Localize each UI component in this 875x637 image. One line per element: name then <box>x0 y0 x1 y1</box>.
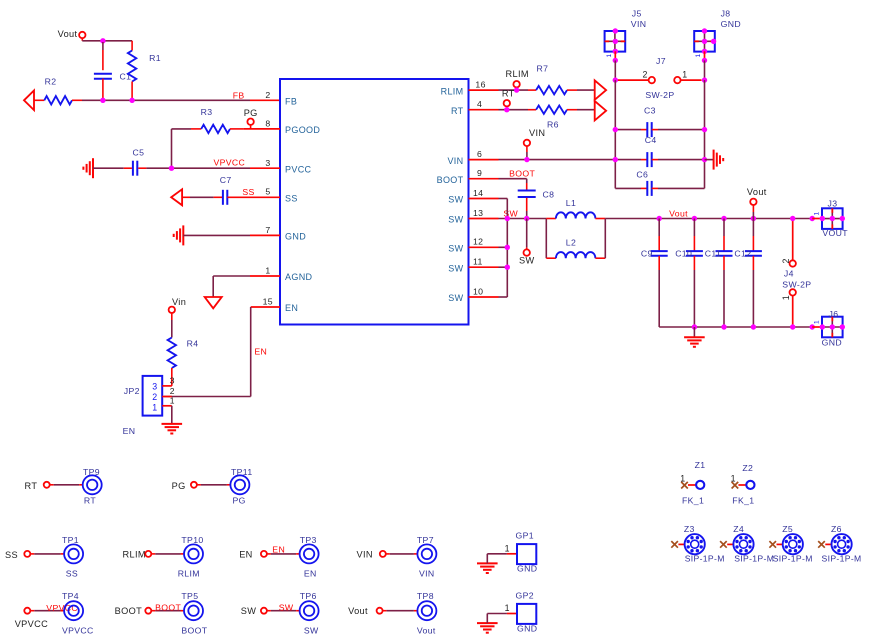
label C11 <box>705 248 721 258</box>
junction J4 top <box>790 216 795 221</box>
label R4 <box>187 338 199 348</box>
svg-text:C12: C12 <box>734 248 751 258</box>
pin number 4 <box>477 99 482 109</box>
wire Vout rail <box>605 218 812 220</box>
wire PGOOD vertical <box>171 129 173 168</box>
connector JP2 body <box>143 376 163 416</box>
node PG label <box>172 481 186 491</box>
svg-text:J7: J7 <box>656 56 666 66</box>
wire Vout top <box>82 40 132 42</box>
wire SW circle stub <box>526 219 528 250</box>
svg-text:RLIM: RLIM <box>123 549 146 559</box>
pin number 5 <box>265 187 270 197</box>
wire GND bus upper <box>704 60 706 80</box>
svg-text:J6: J6 <box>829 309 839 319</box>
mount hole Z4 <box>733 534 753 554</box>
label Z6 <box>831 524 842 534</box>
svg-text:SW-2P: SW-2P <box>782 280 811 290</box>
pin circle RLIM <box>145 551 151 557</box>
junction J3 wire <box>810 216 815 221</box>
connector GP2 body <box>517 604 536 624</box>
svg-text:5: 5 <box>265 187 270 197</box>
junction R1 bottom <box>129 98 134 103</box>
svg-text:13: 13 <box>473 208 483 218</box>
no-connect X Z2 <box>732 482 739 489</box>
wire PG-TP11 <box>197 484 231 486</box>
switch J4 pin1 <box>790 289 796 327</box>
mount hole Z5 <box>783 534 803 554</box>
svg-text:J3: J3 <box>828 199 838 209</box>
pin number 9 <box>477 168 482 178</box>
resistor R1 <box>128 41 136 101</box>
net label VPVCC <box>46 603 78 613</box>
svg-text:TP8: TP8 <box>417 591 434 601</box>
svg-text:1: 1 <box>152 403 157 413</box>
node RLIM label <box>506 69 529 79</box>
label C6 <box>636 170 648 180</box>
svg-text:1: 1 <box>814 320 821 324</box>
svg-text:PG: PG <box>233 495 246 505</box>
Z5 pin stub <box>777 543 783 545</box>
wire PGOOD horiz <box>172 128 192 130</box>
wire R7 to arrow <box>577 89 595 91</box>
svg-text:SW: SW <box>304 625 319 635</box>
testpoint TP11 <box>230 475 249 494</box>
label Z2 <box>742 463 753 473</box>
node PG label <box>244 108 258 118</box>
ground left of C5 <box>83 158 93 178</box>
J4 pin number 1 <box>781 295 791 300</box>
pin circle SS <box>24 551 30 557</box>
svg-text:7: 7 <box>265 225 270 235</box>
svg-text:VIN: VIN <box>631 19 647 29</box>
value FK_1 (Z2) <box>732 495 754 505</box>
wire gnd stub <box>693 327 695 337</box>
svg-text:SIP-1P-M: SIP-1P-M <box>822 554 862 564</box>
J3 pin stub <box>812 218 822 220</box>
J6 junction left <box>820 324 825 329</box>
label GP1 <box>516 531 534 541</box>
net label SS <box>242 187 254 197</box>
wire FB <box>82 99 250 101</box>
svg-text:Vout: Vout <box>669 208 688 218</box>
value SW (TP6) <box>304 625 319 635</box>
node RT label <box>25 481 38 491</box>
pin 14 stub <box>469 198 499 200</box>
label C3 <box>644 106 656 116</box>
svg-text:4: 4 <box>477 99 482 109</box>
switch J7 pin1 <box>674 77 701 83</box>
svg-text:2: 2 <box>643 69 648 79</box>
wire VIN pin6 <box>499 159 616 161</box>
pin circle VIN <box>380 551 386 557</box>
wire SW11 <box>499 266 508 268</box>
svg-text:GP2: GP2 <box>516 591 534 601</box>
label TP8 <box>417 591 434 601</box>
GP2 pin number 1 <box>505 603 510 613</box>
value SW-2P (J4) <box>782 280 811 290</box>
svg-text:Z3: Z3 <box>684 524 695 534</box>
pin circle SW <box>261 608 267 614</box>
no-connect X Z3 <box>671 541 678 548</box>
resistor R4 <box>168 338 176 386</box>
svg-text:VIN: VIN <box>357 549 373 559</box>
J6 junction mid <box>830 324 835 329</box>
pin circle Vout <box>377 608 383 614</box>
svg-text:C6: C6 <box>636 170 648 180</box>
no-connect X Z4 <box>720 541 727 548</box>
testpoint TP6 <box>300 601 319 620</box>
wire GP1 <box>487 554 507 564</box>
label C1 <box>120 72 132 82</box>
svg-text:SS: SS <box>285 194 298 204</box>
svg-text:Vout: Vout <box>747 187 767 197</box>
wire BOOT <box>499 179 527 183</box>
JP2 pin 1 stub <box>162 405 172 407</box>
label TP5 <box>181 591 198 601</box>
value SW-2P (J7) <box>645 90 674 100</box>
wire SW14 <box>499 198 508 200</box>
value VOUT (J3) <box>822 228 848 238</box>
value BOOT (TP5) <box>181 625 207 635</box>
svg-text:1: 1 <box>695 54 702 58</box>
GP2 pin stub <box>507 613 517 615</box>
svg-text:Z2: Z2 <box>742 463 753 473</box>
svg-text:3: 3 <box>265 158 270 168</box>
wire gnd-C5 <box>93 167 124 169</box>
pin circle BOOT <box>145 608 151 614</box>
wire RT-TP9 <box>50 484 83 486</box>
fiducial Z1 <box>696 481 704 489</box>
wire VIN bus upper <box>614 60 616 80</box>
J5 junction bottom <box>613 49 618 54</box>
testpoint TP3 <box>300 544 319 563</box>
junction RT <box>504 107 509 112</box>
pin number 2 <box>265 90 270 100</box>
testpoint TP1 <box>64 544 83 563</box>
pin 16 stub <box>469 89 499 91</box>
label TP7 <box>417 535 434 545</box>
testpoint TP8 <box>417 601 436 620</box>
Z4 pin stub <box>727 543 733 545</box>
svg-text:R7: R7 <box>537 64 549 74</box>
svg-text:Vout: Vout <box>417 625 436 635</box>
svg-text:16: 16 <box>475 79 485 89</box>
wire R6 to arrow <box>577 109 595 111</box>
label C5 <box>133 148 145 158</box>
value GND (J8) <box>721 19 741 29</box>
svg-text:RT: RT <box>84 495 96 505</box>
JP2 pin number 2 <box>170 386 175 396</box>
label R7 <box>537 64 549 74</box>
label R1 <box>149 53 161 63</box>
pin circle RLIM <box>513 81 519 90</box>
junction C4 left <box>613 157 618 162</box>
connector J3 <box>822 208 843 229</box>
capacitor C6 <box>615 181 704 196</box>
J8 junction top <box>702 28 707 33</box>
junction C3 right <box>702 127 707 132</box>
value PG (TP11) <box>233 495 246 505</box>
wire AGND <box>213 276 250 297</box>
wire SW-TP6 <box>267 610 300 612</box>
junction SW11 <box>505 265 510 270</box>
label TP4 <box>62 591 79 601</box>
svg-text:RLIM: RLIM <box>441 86 464 96</box>
pin number 1 <box>265 266 270 276</box>
value SIP-1P-M (Z6) <box>822 554 862 564</box>
svg-text:VOUT: VOUT <box>822 228 848 238</box>
label GP2 <box>516 591 534 601</box>
mount hole Z6 <box>832 534 852 554</box>
wire C4 to ground <box>705 159 714 161</box>
junction C3 left <box>613 127 618 132</box>
connector J5 <box>605 31 626 52</box>
wire RT <box>499 109 529 111</box>
svg-text:JP2: JP2 <box>124 386 140 396</box>
svg-text:SIP-1P-M: SIP-1P-M <box>773 554 813 564</box>
svg-text:C7: C7 <box>220 175 232 185</box>
label JP2 <box>124 386 140 396</box>
svg-text:Z5: Z5 <box>782 524 793 534</box>
node Vout label <box>58 29 78 39</box>
pin number 3 <box>265 158 270 168</box>
offpage arrow RT <box>595 101 606 120</box>
pin number 16 <box>475 79 485 89</box>
svg-text:RT: RT <box>451 106 464 116</box>
svg-text:TP11: TP11 <box>231 467 253 477</box>
label J4 <box>784 268 794 278</box>
svg-text:EN: EN <box>285 303 298 313</box>
svg-text:SW: SW <box>448 263 463 273</box>
ground below rail <box>684 337 705 347</box>
svg-text:R1: R1 <box>149 53 161 63</box>
svg-text:C8: C8 <box>543 189 555 199</box>
Z3 pin stub <box>678 543 684 545</box>
pin 4 stub <box>469 109 499 111</box>
svg-text:2: 2 <box>152 392 157 402</box>
svg-text:GND: GND <box>517 624 537 634</box>
label TP10 <box>181 535 203 545</box>
net label EN <box>254 346 267 356</box>
junction RLIM <box>514 87 519 92</box>
svg-text:SW: SW <box>448 215 463 225</box>
label C9 <box>641 248 653 258</box>
svg-text:SW: SW <box>448 195 463 205</box>
J3 junction right <box>840 216 845 221</box>
svg-text:SW: SW <box>241 606 256 616</box>
junction C8-SW <box>524 216 529 221</box>
svg-text:TP9: TP9 <box>83 467 100 477</box>
wire SW12 <box>499 246 508 248</box>
JP2 pin number 1 <box>170 396 175 406</box>
value EN (TP3) <box>304 568 317 578</box>
pin 7 stub <box>250 234 280 236</box>
label R2 <box>45 77 57 87</box>
svg-text:2: 2 <box>170 386 175 396</box>
node BOOT label <box>115 606 142 616</box>
ground GND pin7 <box>174 225 184 245</box>
testpoint TP5 <box>184 601 203 620</box>
pin number 10 <box>473 286 483 296</box>
svg-text:3: 3 <box>170 375 175 385</box>
label Z4 <box>733 524 744 534</box>
label Z1 <box>695 460 706 470</box>
svg-text:PG: PG <box>172 481 186 491</box>
svg-text:C9: C9 <box>641 248 653 258</box>
J3 pin number 1 <box>814 212 821 216</box>
JP2 pin names 3 2 1 <box>152 381 157 412</box>
svg-text:Vout: Vout <box>58 29 78 39</box>
Z1 pin number 1 <box>680 474 685 484</box>
fiducial Z2 <box>746 481 754 489</box>
wire GND rail <box>659 326 812 328</box>
label TP11 <box>231 467 253 477</box>
svg-text:J8: J8 <box>721 9 731 19</box>
pin 13 stub <box>469 218 499 220</box>
pin number 8 <box>265 119 270 129</box>
svg-text:12: 12 <box>473 237 483 247</box>
svg-text:VIN: VIN <box>447 156 463 166</box>
svg-text:Z1: Z1 <box>695 460 706 470</box>
svg-text:3: 3 <box>152 381 157 391</box>
svg-text:GND: GND <box>285 232 306 242</box>
svg-text:15: 15 <box>263 297 273 307</box>
value RT (TP9) <box>84 495 96 505</box>
JP2 pin number 3 <box>170 375 175 385</box>
junction J8 wire <box>702 58 707 63</box>
svg-text:C4: C4 <box>645 135 657 145</box>
svg-text:SW: SW <box>448 293 463 303</box>
mount hole Z3 <box>685 534 705 554</box>
svg-text:Vout: Vout <box>348 606 368 616</box>
svg-text:6: 6 <box>477 149 482 159</box>
pin number 14 <box>473 188 483 198</box>
node RT label <box>502 88 515 98</box>
svg-text:1: 1 <box>814 212 821 216</box>
svg-text:Z6: Z6 <box>831 524 842 534</box>
pin circle Vout <box>79 32 85 41</box>
svg-text:SIP-1P-M: SIP-1P-M <box>685 554 725 564</box>
svg-text:EN: EN <box>304 568 317 578</box>
value FK_1 (Z1) <box>682 495 704 505</box>
svg-text:C5: C5 <box>133 148 145 158</box>
junction C1 bottom <box>100 98 105 103</box>
svg-text:C10: C10 <box>675 248 692 258</box>
pin circle RT <box>44 482 50 488</box>
node SW label <box>519 256 535 266</box>
node SW label <box>241 606 256 616</box>
J7 pin number 1 <box>682 69 687 79</box>
svg-text:EN: EN <box>239 549 252 559</box>
junction SW12 <box>505 245 510 250</box>
label Z5 <box>782 524 793 534</box>
pin 10 stub <box>469 296 499 298</box>
svg-text:1: 1 <box>781 295 791 300</box>
svg-text:TP3: TP3 <box>300 535 317 545</box>
wire GND bus right <box>704 80 706 188</box>
GP1 pin stub <box>507 553 517 555</box>
value GND (GP2) <box>517 624 537 634</box>
svg-text:1: 1 <box>505 603 510 613</box>
svg-text:GND: GND <box>721 19 741 29</box>
no-connect X Z6 <box>818 541 825 548</box>
wire RLIM <box>499 89 529 91</box>
pin circle PG <box>247 119 253 129</box>
label L2 <box>566 238 576 248</box>
net label FB <box>233 90 245 100</box>
junction J7-J5 <box>613 77 618 82</box>
offpage arrow SS <box>171 189 182 205</box>
net label SW <box>503 208 518 218</box>
J8 pin stub below <box>704 51 706 58</box>
svg-text:PGOOD: PGOOD <box>285 125 320 135</box>
pin circle Vin <box>169 307 175 320</box>
junction C11 top <box>721 216 726 221</box>
svg-text:BOOT: BOOT <box>155 602 181 612</box>
ground GP2 <box>477 623 498 633</box>
junction C9 top <box>657 216 662 221</box>
junction C1 top <box>100 38 105 43</box>
U1 pin names <box>285 86 464 313</box>
pin circle EN <box>261 551 267 557</box>
svg-text:L1: L1 <box>566 198 576 208</box>
svg-text:J4: J4 <box>784 268 794 278</box>
JP2 pin 2 stub <box>162 396 172 398</box>
svg-text:Vin: Vin <box>172 297 186 307</box>
wire SW13 <box>499 218 547 220</box>
J5 pin number 1 <box>606 54 613 58</box>
svg-text:1: 1 <box>170 396 175 406</box>
net label BOOT <box>509 168 535 178</box>
svg-text:R4: R4 <box>187 338 199 348</box>
connector GP1 body <box>517 544 536 564</box>
net label SW <box>279 602 294 612</box>
ground right of C4 <box>714 150 724 170</box>
svg-text:EN: EN <box>254 346 267 356</box>
svg-text:SW: SW <box>519 256 535 266</box>
label Z3 <box>684 524 695 534</box>
node VIN label <box>357 549 373 559</box>
value RLIM (TP10) <box>178 568 200 578</box>
resistor R3 <box>191 125 244 133</box>
J8 pin number 1 <box>695 54 702 58</box>
junction VIN circle <box>524 157 529 162</box>
svg-text:Z4: Z4 <box>733 524 744 534</box>
label R3 <box>201 107 213 117</box>
switch J4 pin2 <box>790 219 796 267</box>
wire SW10 <box>499 296 508 298</box>
label C10 <box>675 248 692 258</box>
testpoint TP9 <box>83 475 102 494</box>
svg-text:TP1: TP1 <box>62 535 79 545</box>
J4 pin number 2 <box>781 258 791 263</box>
label C4 <box>645 135 657 145</box>
svg-text:TP10: TP10 <box>181 535 203 545</box>
junction C10 top <box>692 216 697 221</box>
value GND (J6) <box>822 338 842 348</box>
junction C10 bottom <box>692 324 697 329</box>
inductor L2 <box>546 252 605 258</box>
net label EN <box>272 544 285 554</box>
wire VIN bus left <box>614 80 616 188</box>
label TP9 <box>83 467 100 477</box>
node Vin label <box>172 297 186 307</box>
wire VIN-TP7 <box>386 553 418 555</box>
J5 pin stub below <box>614 51 616 58</box>
svg-text:RLIM: RLIM <box>178 568 200 578</box>
switch J7 pin2 <box>617 77 655 83</box>
